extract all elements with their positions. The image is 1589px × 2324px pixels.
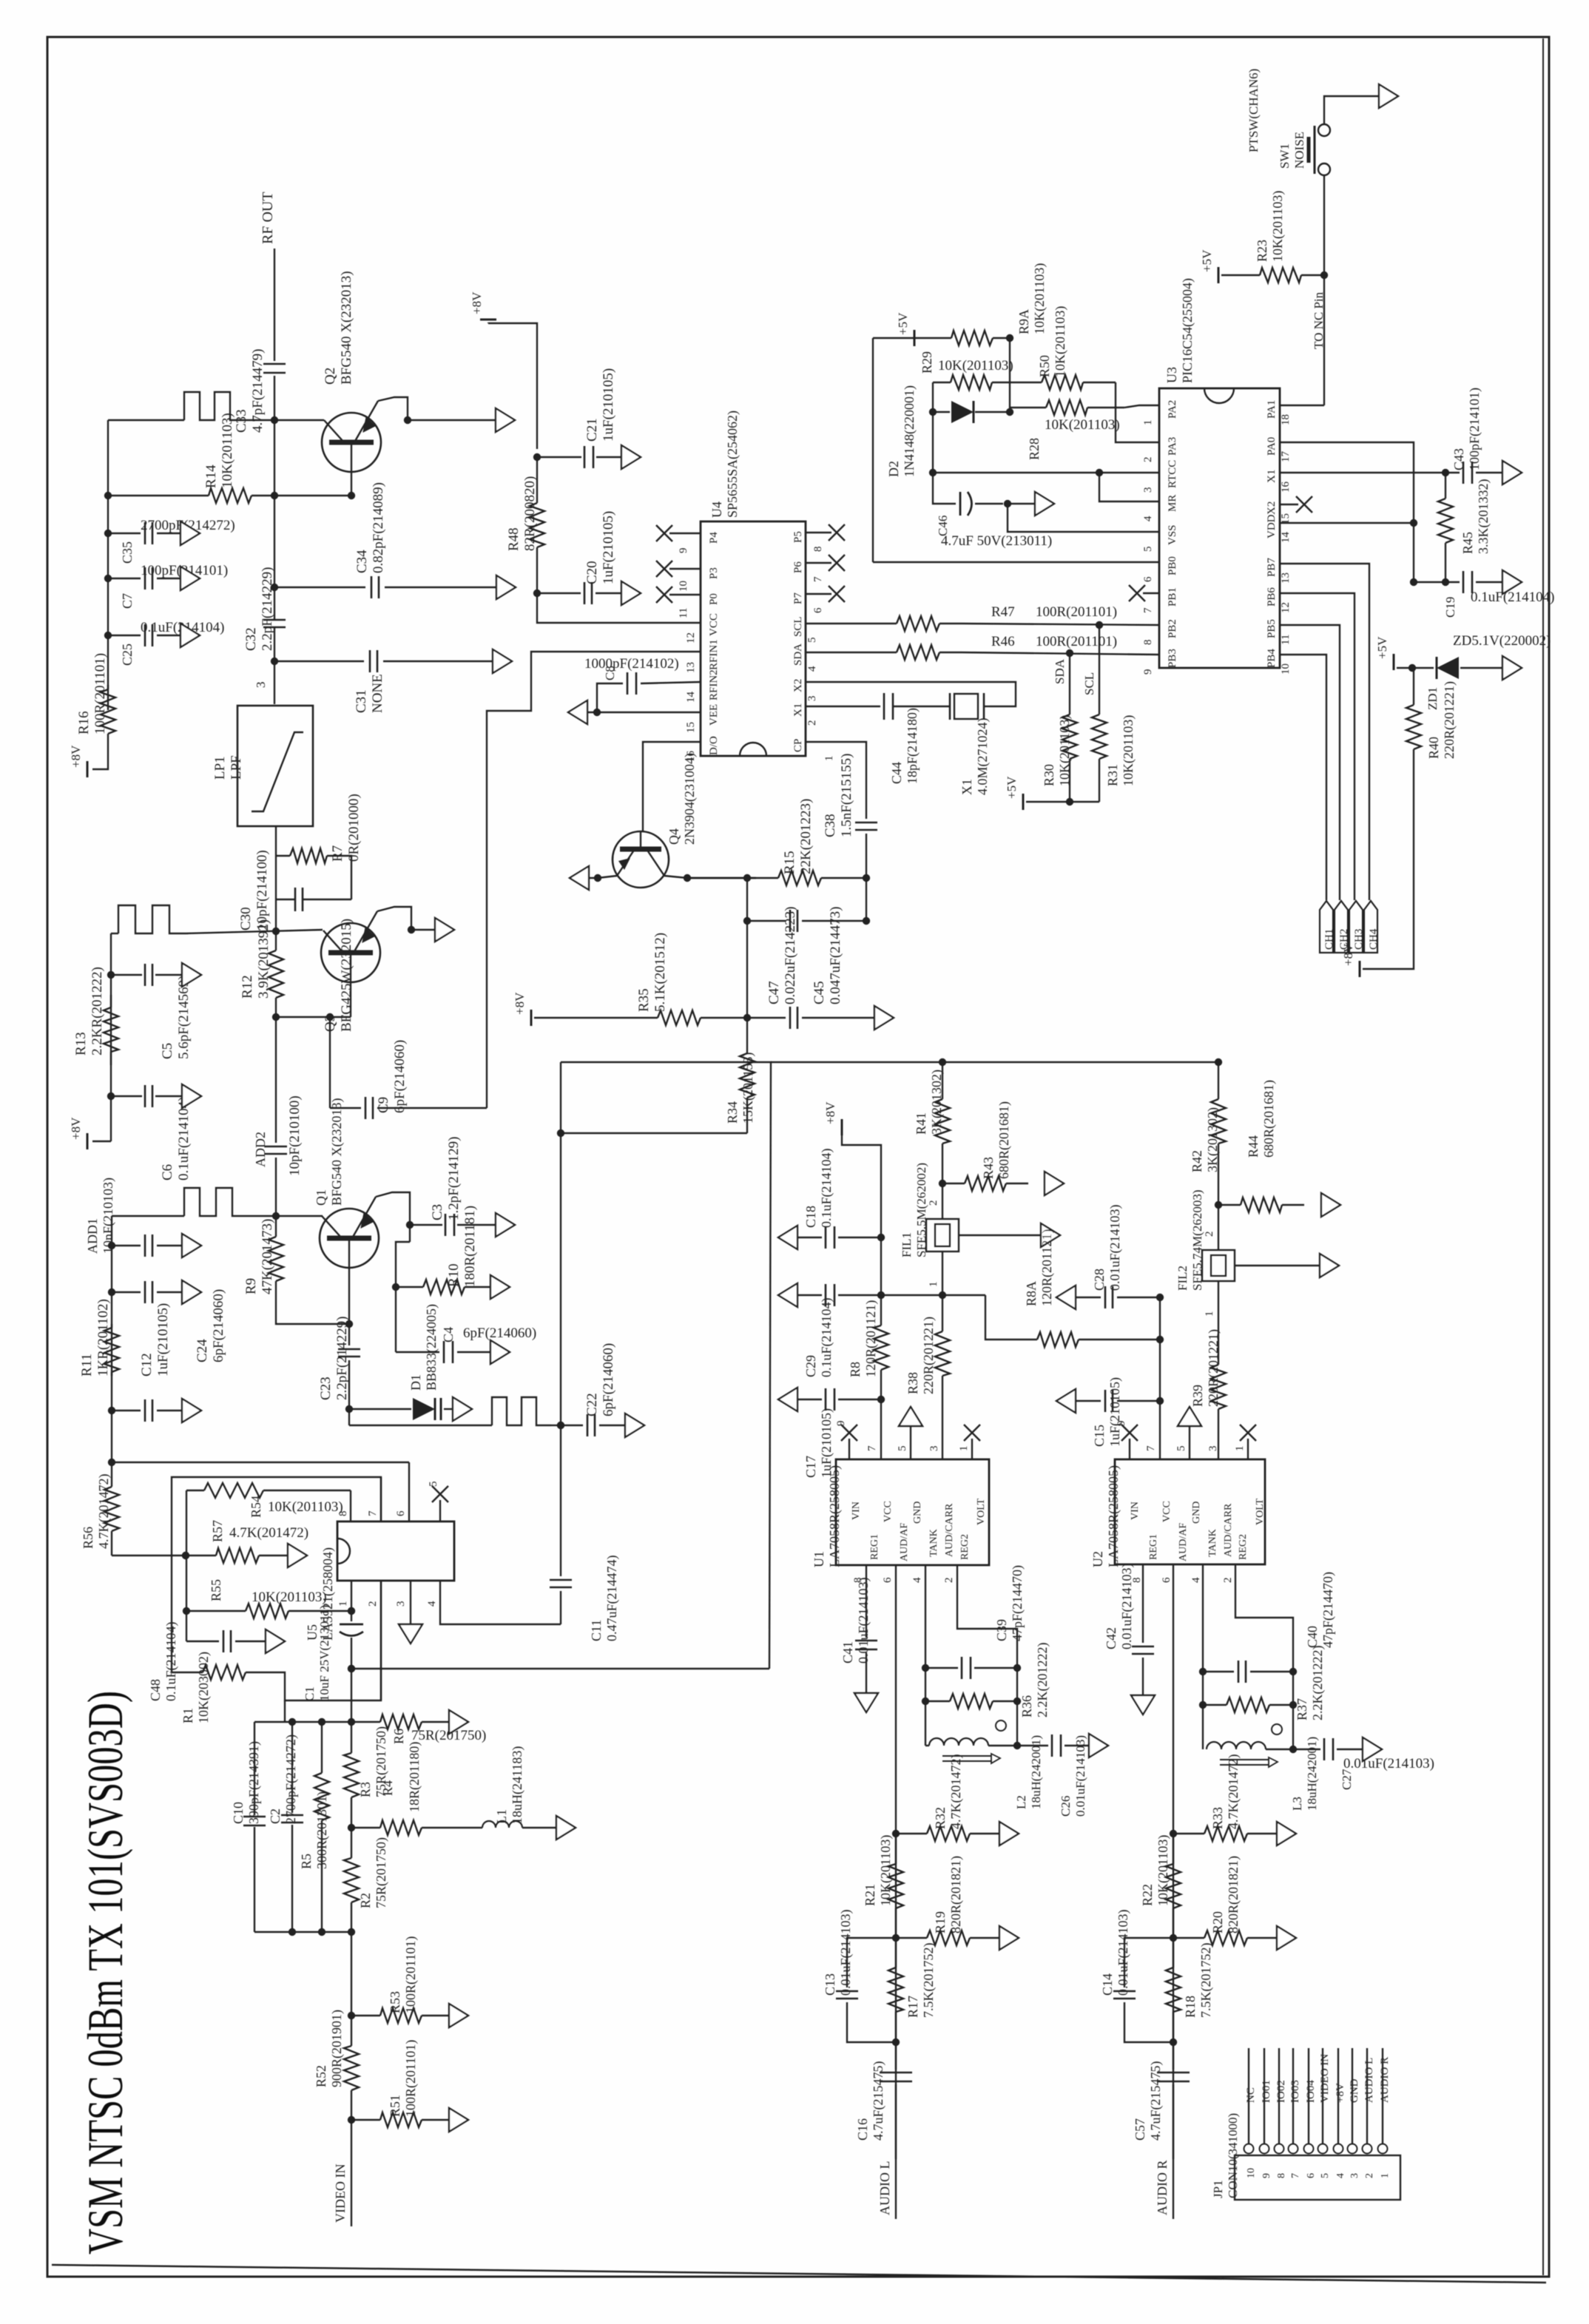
resistor R23 xyxy=(1237,274,1260,276)
svg-text:47pF(214470): 47pF(214470) xyxy=(1010,1565,1025,1641)
svg-text:C13: C13 xyxy=(823,1973,837,1996)
wire C46 to VSS xyxy=(1008,504,1159,532)
pin PB1 stub xyxy=(1143,592,1159,594)
svg-text:VOLT: VOLT xyxy=(1255,1499,1266,1525)
pin U4-9 P4 stub xyxy=(669,533,701,534)
svg-text:C14: C14 xyxy=(1100,1973,1115,1996)
pin U5-5 stub xyxy=(439,1500,441,1521)
arrow C43 out xyxy=(1502,461,1522,484)
resistor R34 xyxy=(746,1018,748,1053)
resistor R40 xyxy=(1412,667,1414,669)
resistor R20 xyxy=(1173,1937,1204,1939)
svg-text:3K(201302): 3K(201302) xyxy=(929,1070,945,1135)
svg-text:L1: L1 xyxy=(494,1809,509,1824)
wire VDD row xyxy=(1280,522,1414,524)
wire FIL1 out right xyxy=(959,1234,1042,1236)
resistor R5 xyxy=(318,1718,325,1726)
svg-text:VOLT: VOLT xyxy=(976,1499,987,1525)
svg-text:C20: C20 xyxy=(584,561,600,584)
capacitor C14 xyxy=(1124,1938,1173,1987)
svg-text:820R(201821): 820R(201821) xyxy=(1226,1856,1241,1933)
svg-text:2N3904(231004): 2N3904(231004) xyxy=(682,753,698,845)
svg-text:9: 9 xyxy=(1261,2173,1272,2178)
inductor meander C22 xyxy=(492,1397,551,1425)
svg-text:U4: U4 xyxy=(709,501,724,518)
svg-text:10K(201103): 10K(201103) xyxy=(1156,1835,1171,1906)
svg-text:RTCC: RTCC xyxy=(1167,460,1178,488)
wire C10 bus top xyxy=(254,1721,351,1723)
svg-text:10K(201103): 10K(201103) xyxy=(1053,306,1068,377)
svg-text:3: 3 xyxy=(395,1601,407,1607)
power +5V R23 xyxy=(1218,267,1220,283)
svg-text:C22: C22 xyxy=(584,1393,600,1416)
svg-text:10pF(210100): 10pF(210100) xyxy=(287,1095,303,1176)
svg-text:0.047uF(214473): 0.047uF(214473) xyxy=(828,907,843,1004)
svg-text:5.6pF(214569): 5.6pF(214569) xyxy=(176,976,192,1059)
power +8V U5 bus xyxy=(108,1462,409,1463)
svg-text:18pF(214180): 18pF(214180) xyxy=(905,708,920,784)
arrow C31 out xyxy=(493,649,512,673)
arrow C20 out xyxy=(621,581,641,605)
svg-text:1: 1 xyxy=(823,756,835,762)
capacitor ADD2 xyxy=(275,1017,277,1143)
svg-text:R30: R30 xyxy=(1042,764,1056,786)
resistor R4 xyxy=(351,1827,380,1828)
svg-text:0.1uF(214104): 0.1uF(214104) xyxy=(819,1148,834,1228)
resistor R33 xyxy=(1173,1833,1204,1834)
arrow C15 xyxy=(1056,1389,1076,1413)
IC U1 LA7058R xyxy=(836,1459,989,1565)
svg-text:R42: R42 xyxy=(1190,1150,1204,1172)
wire D2 anode to RTCC xyxy=(932,412,934,473)
svg-text:1N4148(220001): 1N4148(220001) xyxy=(902,385,917,477)
svg-text:6pF(214060): 6pF(214060) xyxy=(601,1343,616,1416)
wire R54 row xyxy=(186,1490,204,1491)
svg-text:4.7K(201472): 4.7K(201472) xyxy=(1226,1754,1241,1830)
wire R56 to R57 node xyxy=(112,1555,186,1556)
svg-text:X1: X1 xyxy=(1266,470,1278,483)
resistor R16 xyxy=(107,685,109,689)
svg-text:3K(201302): 3K(201302) xyxy=(1205,1107,1221,1172)
wire shield to C11 xyxy=(560,1425,561,1576)
svg-text:+8V: +8V xyxy=(823,1101,837,1124)
arrow L1 out xyxy=(556,1816,576,1840)
svg-text:R48: R48 xyxy=(506,527,522,551)
svg-text:U2: U2 xyxy=(1090,1551,1105,1567)
svg-text:C44: C44 xyxy=(889,762,904,784)
svg-text:R3: R3 xyxy=(358,1782,373,1797)
capacitor C20 xyxy=(533,590,541,597)
svg-text:180R(201181): 180R(201181) xyxy=(462,1206,478,1287)
svg-text:2: 2 xyxy=(1364,2173,1375,2178)
svg-text:R57: R57 xyxy=(210,1520,225,1542)
svg-text:RFIN2: RFIN2 xyxy=(708,669,720,700)
pin X2 stub xyxy=(1280,504,1298,505)
svg-text:0.82pF(214089): 0.82pF(214089) xyxy=(371,482,386,573)
svg-text:0.01uF(214103): 0.01uF(214103) xyxy=(1116,1909,1131,1996)
svg-text:10K(201103): 10K(201103) xyxy=(268,1499,343,1515)
svg-text:LP1: LP1 xyxy=(212,756,228,780)
svg-text:100R(201101): 100R(201101) xyxy=(1036,604,1117,620)
svg-text:R36: R36 xyxy=(1019,1695,1034,1717)
wire FIL1 bottom to node xyxy=(942,1251,943,1295)
node C16 xyxy=(892,2038,900,2046)
svg-text:R5: R5 xyxy=(299,1854,314,1869)
svg-text:0.1uF(214104): 0.1uF(214104) xyxy=(163,1621,179,1701)
svg-text:2.2K(201222): 2.2K(201222) xyxy=(1035,1643,1050,1718)
svg-text:+8V: +8V xyxy=(513,992,527,1015)
svg-text:R32: R32 xyxy=(933,1807,948,1829)
capacitor C16 xyxy=(895,2042,897,2070)
svg-text:JP1: JP1 xyxy=(1211,2180,1225,2198)
svg-text:PA0: PA0 xyxy=(1266,437,1278,456)
wire R54 to pin8 xyxy=(350,1490,351,1521)
svg-text:2.2KR(201222): 2.2KR(201222) xyxy=(90,967,105,1055)
capacitor C15 xyxy=(1156,1397,1164,1405)
capacitor C8 RFIN2 xyxy=(597,683,623,712)
svg-text:4.7K(201472): 4.7K(201472) xyxy=(229,1525,308,1541)
svg-text:4.0M(271024): 4.0M(271024) xyxy=(975,718,991,796)
resistor R22 xyxy=(1173,1834,1174,1864)
svg-text:C19: C19 xyxy=(1443,597,1457,618)
svg-text:4.7uF(215475): 4.7uF(215475) xyxy=(871,2061,886,2141)
arrow C24 out xyxy=(182,1234,201,1257)
svg-text:10pF(214100): 10pF(214100) xyxy=(254,850,270,930)
svg-text:CP: CP xyxy=(792,739,804,752)
wire MR branch xyxy=(1099,473,1159,501)
svg-text:PIC16C54(255004): PIC16C54(255004) xyxy=(1180,278,1195,383)
svg-text:2.2pF(214229): 2.2pF(214229) xyxy=(260,567,275,651)
wire PB6 net xyxy=(1280,593,1354,900)
capacitor C7 xyxy=(104,575,112,582)
ground U5 pin3 xyxy=(410,1581,411,1624)
wire +8V to U5 pin6 xyxy=(408,1462,410,1521)
pin U2-9 stub xyxy=(1129,1439,1130,1459)
wire left bus ADD1 xyxy=(112,1215,184,1217)
wire shield left vertical xyxy=(560,1062,561,1425)
svg-text:AUDIO L: AUDIO L xyxy=(1363,2058,1375,2103)
capacitor C21 xyxy=(533,453,541,461)
node FIL1 top xyxy=(939,1180,946,1187)
svg-text:5: 5 xyxy=(1142,547,1154,553)
wire R29A junction vertical xyxy=(1009,338,1011,412)
svg-text:3.9K(201392): 3.9K(201392) xyxy=(256,919,271,999)
arrow C48 out xyxy=(266,1629,285,1653)
svg-text:C48: C48 xyxy=(148,1679,163,1701)
svg-text:P6: P6 xyxy=(792,561,804,573)
svg-text:1: 1 xyxy=(337,1601,349,1607)
arrow C3 out xyxy=(496,1213,515,1237)
svg-text:SP5655SA(254062): SP5655SA(254062) xyxy=(725,411,740,518)
svg-text:220R(201221): 220R(201221) xyxy=(1442,681,1457,759)
svg-text:X1: X1 xyxy=(959,779,974,795)
arrow R44 out xyxy=(1321,1193,1340,1217)
svg-text:R11: R11 xyxy=(79,1354,95,1377)
arrow C47 out xyxy=(874,1006,894,1030)
svg-text:2.2pF(214229): 2.2pF(214229) xyxy=(334,1317,350,1400)
svg-text:REG2: REG2 xyxy=(959,1534,971,1560)
svg-text:IO02: IO02 xyxy=(1275,2080,1287,2103)
svg-text:1: 1 xyxy=(1204,1311,1215,1317)
resistor R42 xyxy=(1218,1062,1219,1099)
svg-text:R51: R51 xyxy=(388,2095,402,2117)
svg-text:LA7058R(258005): LA7058R(258005) xyxy=(827,1465,843,1567)
wire U5 bottom to video bus xyxy=(284,1700,286,1722)
svg-text:R35: R35 xyxy=(636,988,652,1012)
resistor R37 tank xyxy=(1202,1672,1204,1705)
resistor R50 xyxy=(1010,382,1042,383)
svg-text:AUD/CARR: AUD/CARR xyxy=(1223,1503,1234,1557)
capacitor C31 xyxy=(271,658,278,665)
node FIL2 top xyxy=(1215,1201,1222,1209)
resistor R18 xyxy=(1173,1938,1174,1967)
ground C41 xyxy=(854,1693,878,1712)
resistor R8A xyxy=(1006,1339,1037,1340)
svg-text:6pF(214060): 6pF(214060) xyxy=(392,1040,408,1113)
svg-text:+8V: +8V xyxy=(1341,943,1355,966)
wire VCC U2 xyxy=(1159,1401,1161,1459)
svg-text:D2: D2 xyxy=(886,461,901,477)
inductor meander base Q1 xyxy=(184,1188,248,1216)
svg-text:BB833(224005): BB833(224005) xyxy=(424,1304,439,1391)
wire R42 feed xyxy=(771,1061,1218,1063)
svg-text:3: 3 xyxy=(1207,1446,1219,1452)
arrow R43 out xyxy=(1045,1172,1064,1195)
svg-text:7.5K(201752): 7.5K(201752) xyxy=(921,1943,937,2019)
wire R40 to +8V xyxy=(1363,786,1414,969)
svg-text:R52: R52 xyxy=(314,2065,328,2087)
svg-text:C4: C4 xyxy=(441,1327,456,1342)
svg-text:BFG540 X(232013): BFG540 X(232013) xyxy=(329,1098,345,1206)
wire LPF bottom to R7 xyxy=(275,826,277,856)
svg-text:15: 15 xyxy=(685,722,697,733)
svg-text:PB4: PB4 xyxy=(1266,649,1278,668)
svg-text:AUD/AF: AUD/AF xyxy=(1178,1523,1189,1561)
wire Q4 collector row xyxy=(664,876,756,878)
wire VEE row xyxy=(570,712,701,713)
resistor R28 xyxy=(1010,407,1046,408)
crystal X1 xyxy=(806,706,880,707)
svg-text:2.2K(201222): 2.2K(201222) xyxy=(1310,1646,1326,1721)
wire video node to bus xyxy=(351,1668,769,1669)
svg-text:2: 2 xyxy=(1222,1578,1234,1584)
svg-text:9: 9 xyxy=(835,1421,847,1427)
svg-text:CH4: CH4 xyxy=(1368,928,1380,950)
svg-text:C26: C26 xyxy=(1059,1796,1073,1817)
arrow C22 out xyxy=(625,1413,644,1437)
svg-text:3: 3 xyxy=(1142,487,1154,493)
svg-text:1: 1 xyxy=(958,1446,970,1452)
svg-text:680R(201681): 680R(201681) xyxy=(996,1101,1012,1179)
svg-text:R20: R20 xyxy=(1210,1911,1225,1933)
svg-text:11: 11 xyxy=(678,608,689,618)
arrow C35 out xyxy=(181,521,200,545)
switch SW1 xyxy=(1318,124,1330,136)
svg-text:R40: R40 xyxy=(1426,737,1441,759)
resistor R36 tank xyxy=(925,1668,926,1701)
svg-text:BFG425W(232015): BFG425W(232015) xyxy=(339,919,354,1032)
resistor R19 xyxy=(896,1937,927,1939)
resistor R31 SCL pulldown xyxy=(1099,625,1100,710)
power +8V Q3 rail xyxy=(87,1133,89,1149)
svg-text:ZD1: ZD1 xyxy=(1426,687,1440,710)
svg-text:AUDIO R: AUDIO R xyxy=(1155,2161,1170,2216)
pin U4-7 P6 stub xyxy=(806,562,831,564)
svg-text:22K(201223): 22K(201223) xyxy=(798,799,814,874)
svg-text:2: 2 xyxy=(806,720,818,726)
inductor L2 tank xyxy=(925,1701,926,1746)
svg-text:12: 12 xyxy=(1280,602,1292,613)
arrow C27 out xyxy=(1363,1737,1382,1761)
pin JP1-9 IO01 xyxy=(1260,2144,1269,2154)
svg-text:X2: X2 xyxy=(1266,501,1278,515)
capacitor C11 xyxy=(550,1579,572,1581)
pin U4-6 P7 stub xyxy=(806,593,831,595)
svg-text:C32: C32 xyxy=(243,627,259,651)
arrow R10 out xyxy=(490,1275,510,1299)
svg-text:C43: C43 xyxy=(1451,448,1466,470)
pin U4-8 P5 stub xyxy=(806,532,831,533)
svg-text:TANK: TANK xyxy=(928,1529,939,1557)
svg-text:C17: C17 xyxy=(803,1456,818,1478)
svg-text:MR: MR xyxy=(1167,495,1178,512)
svg-text:+8V: +8V xyxy=(69,1117,83,1140)
node Q2 base junction xyxy=(271,416,278,424)
svg-text:1: 1 xyxy=(928,1282,939,1288)
capacitor C18 xyxy=(877,1234,885,1241)
svg-text:U1: U1 xyxy=(812,1551,826,1567)
wire Q1 collector xyxy=(376,1192,410,1242)
svg-text:9: 9 xyxy=(1142,669,1154,675)
wire video vertical main xyxy=(351,1669,352,1722)
svg-text:R12: R12 xyxy=(240,975,255,999)
svg-text:5: 5 xyxy=(806,638,818,644)
svg-text:LA7058R(258005): LA7058R(258005) xyxy=(1106,1465,1121,1567)
wire U5 loop outer xyxy=(172,1477,381,1672)
arrow C29 xyxy=(778,1283,797,1307)
svg-text:220R(201221): 220R(201221) xyxy=(1206,1329,1221,1407)
arrow C4 out xyxy=(490,1340,510,1364)
capacitor C47 xyxy=(747,1017,786,1019)
svg-text:VIDEO IN: VIDEO IN xyxy=(333,2164,348,2223)
svg-text:100pF(214101): 100pF(214101) xyxy=(1467,388,1482,470)
capacitor C12 xyxy=(108,1288,115,1296)
svg-text:C5: C5 xyxy=(160,1043,175,1059)
svg-text:2: 2 xyxy=(1204,1232,1215,1237)
varactor D1 xyxy=(345,1405,353,1413)
wire U5 pin4 net xyxy=(440,1581,561,1624)
svg-text:4.7uF 50V(213011): 4.7uF 50V(213011) xyxy=(941,533,1052,549)
wire vertical Q2 base to LPF xyxy=(274,420,275,584)
svg-text:L3: L3 xyxy=(1290,1797,1304,1811)
pin U1-9 stub xyxy=(849,1439,850,1459)
arrow C46 xyxy=(1008,503,1034,504)
inductor meander base Q3 xyxy=(118,905,186,933)
svg-text:R31: R31 xyxy=(1105,764,1120,786)
node R51 xyxy=(348,2116,355,2124)
capacitor C2 xyxy=(289,1718,296,1726)
resistor R2 xyxy=(351,1828,352,1858)
svg-text:R17: R17 xyxy=(905,1996,920,2018)
svg-text:RF OUT: RF OUT xyxy=(260,192,276,244)
node Q3 base xyxy=(272,928,280,935)
svg-text:0R(201000): 0R(201000) xyxy=(346,794,362,862)
wire CP to C38 xyxy=(806,742,866,819)
wire audio L vertical xyxy=(895,1814,897,2219)
svg-text:P0: P0 xyxy=(708,593,720,605)
svg-text:13: 13 xyxy=(685,662,697,673)
svg-text:BFG540 X(232013): BFG540 X(232013) xyxy=(339,271,354,385)
svg-text:+5V: +5V xyxy=(1375,636,1389,659)
svg-text:PB0: PB0 xyxy=(1167,556,1178,575)
capacitor C10 xyxy=(254,1722,255,1815)
node R3 R4 xyxy=(348,1824,355,1831)
arrow VEE xyxy=(568,700,587,724)
svg-text:SCL: SCL xyxy=(792,616,804,637)
svg-text:Q4: Q4 xyxy=(667,828,681,845)
wire pin2 down xyxy=(380,1581,382,1700)
resistor R43 xyxy=(942,1183,965,1184)
svg-text:C11: C11 xyxy=(589,1620,604,1641)
pin U1-5 power arrow xyxy=(910,1426,911,1459)
svg-text:7: 7 xyxy=(1290,2173,1301,2178)
svg-text:2700pF(214272): 2700pF(214272) xyxy=(283,1734,299,1824)
svg-text:0.01uF(214103): 0.01uF(214103) xyxy=(856,1577,871,1663)
arrow C6 out xyxy=(182,1084,201,1108)
resistor R48 xyxy=(536,457,538,503)
wire U2 pin4 tank xyxy=(1202,1564,1204,1672)
svg-text:17: 17 xyxy=(1280,451,1292,463)
svg-text:13: 13 xyxy=(1280,572,1292,584)
svg-text:IO01: IO01 xyxy=(1261,2080,1272,2103)
svg-text:C40: C40 xyxy=(1305,1626,1320,1648)
capacitor C48 xyxy=(186,1641,219,1642)
svg-text:100R(201101): 100R(201101) xyxy=(92,653,108,734)
svg-text:R9: R9 xyxy=(243,1278,259,1294)
svg-text:0.01uF(214103): 0.01uF(214103) xyxy=(1107,1204,1123,1291)
svg-text:7: 7 xyxy=(367,1510,379,1516)
wire PB0 row xyxy=(873,561,1159,563)
svg-text:C12: C12 xyxy=(139,1353,155,1377)
wire SW1 to arrow xyxy=(1324,96,1380,124)
svg-text:2: 2 xyxy=(367,1601,379,1607)
pin U4-11 P0 stub xyxy=(669,594,701,595)
svg-text:GND: GND xyxy=(1349,2078,1360,2103)
svg-text:SW1: SW1 xyxy=(1278,143,1292,169)
wire PB5 net xyxy=(1280,625,1340,900)
svg-text:1.5nF(215155): 1.5nF(215155) xyxy=(839,754,854,837)
svg-text:R45: R45 xyxy=(1460,532,1475,554)
svg-text:U3: U3 xyxy=(1164,367,1179,383)
svg-text:C41: C41 xyxy=(840,1641,855,1663)
svg-text:IO04: IO04 xyxy=(1305,2080,1317,2103)
svg-text:4.7K(201472): 4.7K(201472) xyxy=(948,1754,964,1830)
resistor R51 xyxy=(351,2119,380,2121)
resistor R15 xyxy=(756,877,778,879)
arrow RF drive output xyxy=(496,408,515,432)
arrow R32 out xyxy=(999,1822,1019,1845)
svg-text:7: 7 xyxy=(1145,1445,1157,1451)
svg-text:4: 4 xyxy=(426,1601,438,1607)
pin U2-5 power arrow xyxy=(1189,1426,1190,1459)
svg-text:TO NC Pin: TO NC Pin xyxy=(1312,291,1326,349)
svg-text:R47: R47 xyxy=(991,604,1015,620)
svg-text:R9A: R9A xyxy=(1016,309,1031,334)
svg-text:C35: C35 xyxy=(120,541,135,564)
svg-text:3.3K(201332): 3.3K(201332) xyxy=(1476,479,1491,555)
inductor meander base Q2 xyxy=(184,392,246,420)
power +8V CH xyxy=(1359,961,1361,977)
